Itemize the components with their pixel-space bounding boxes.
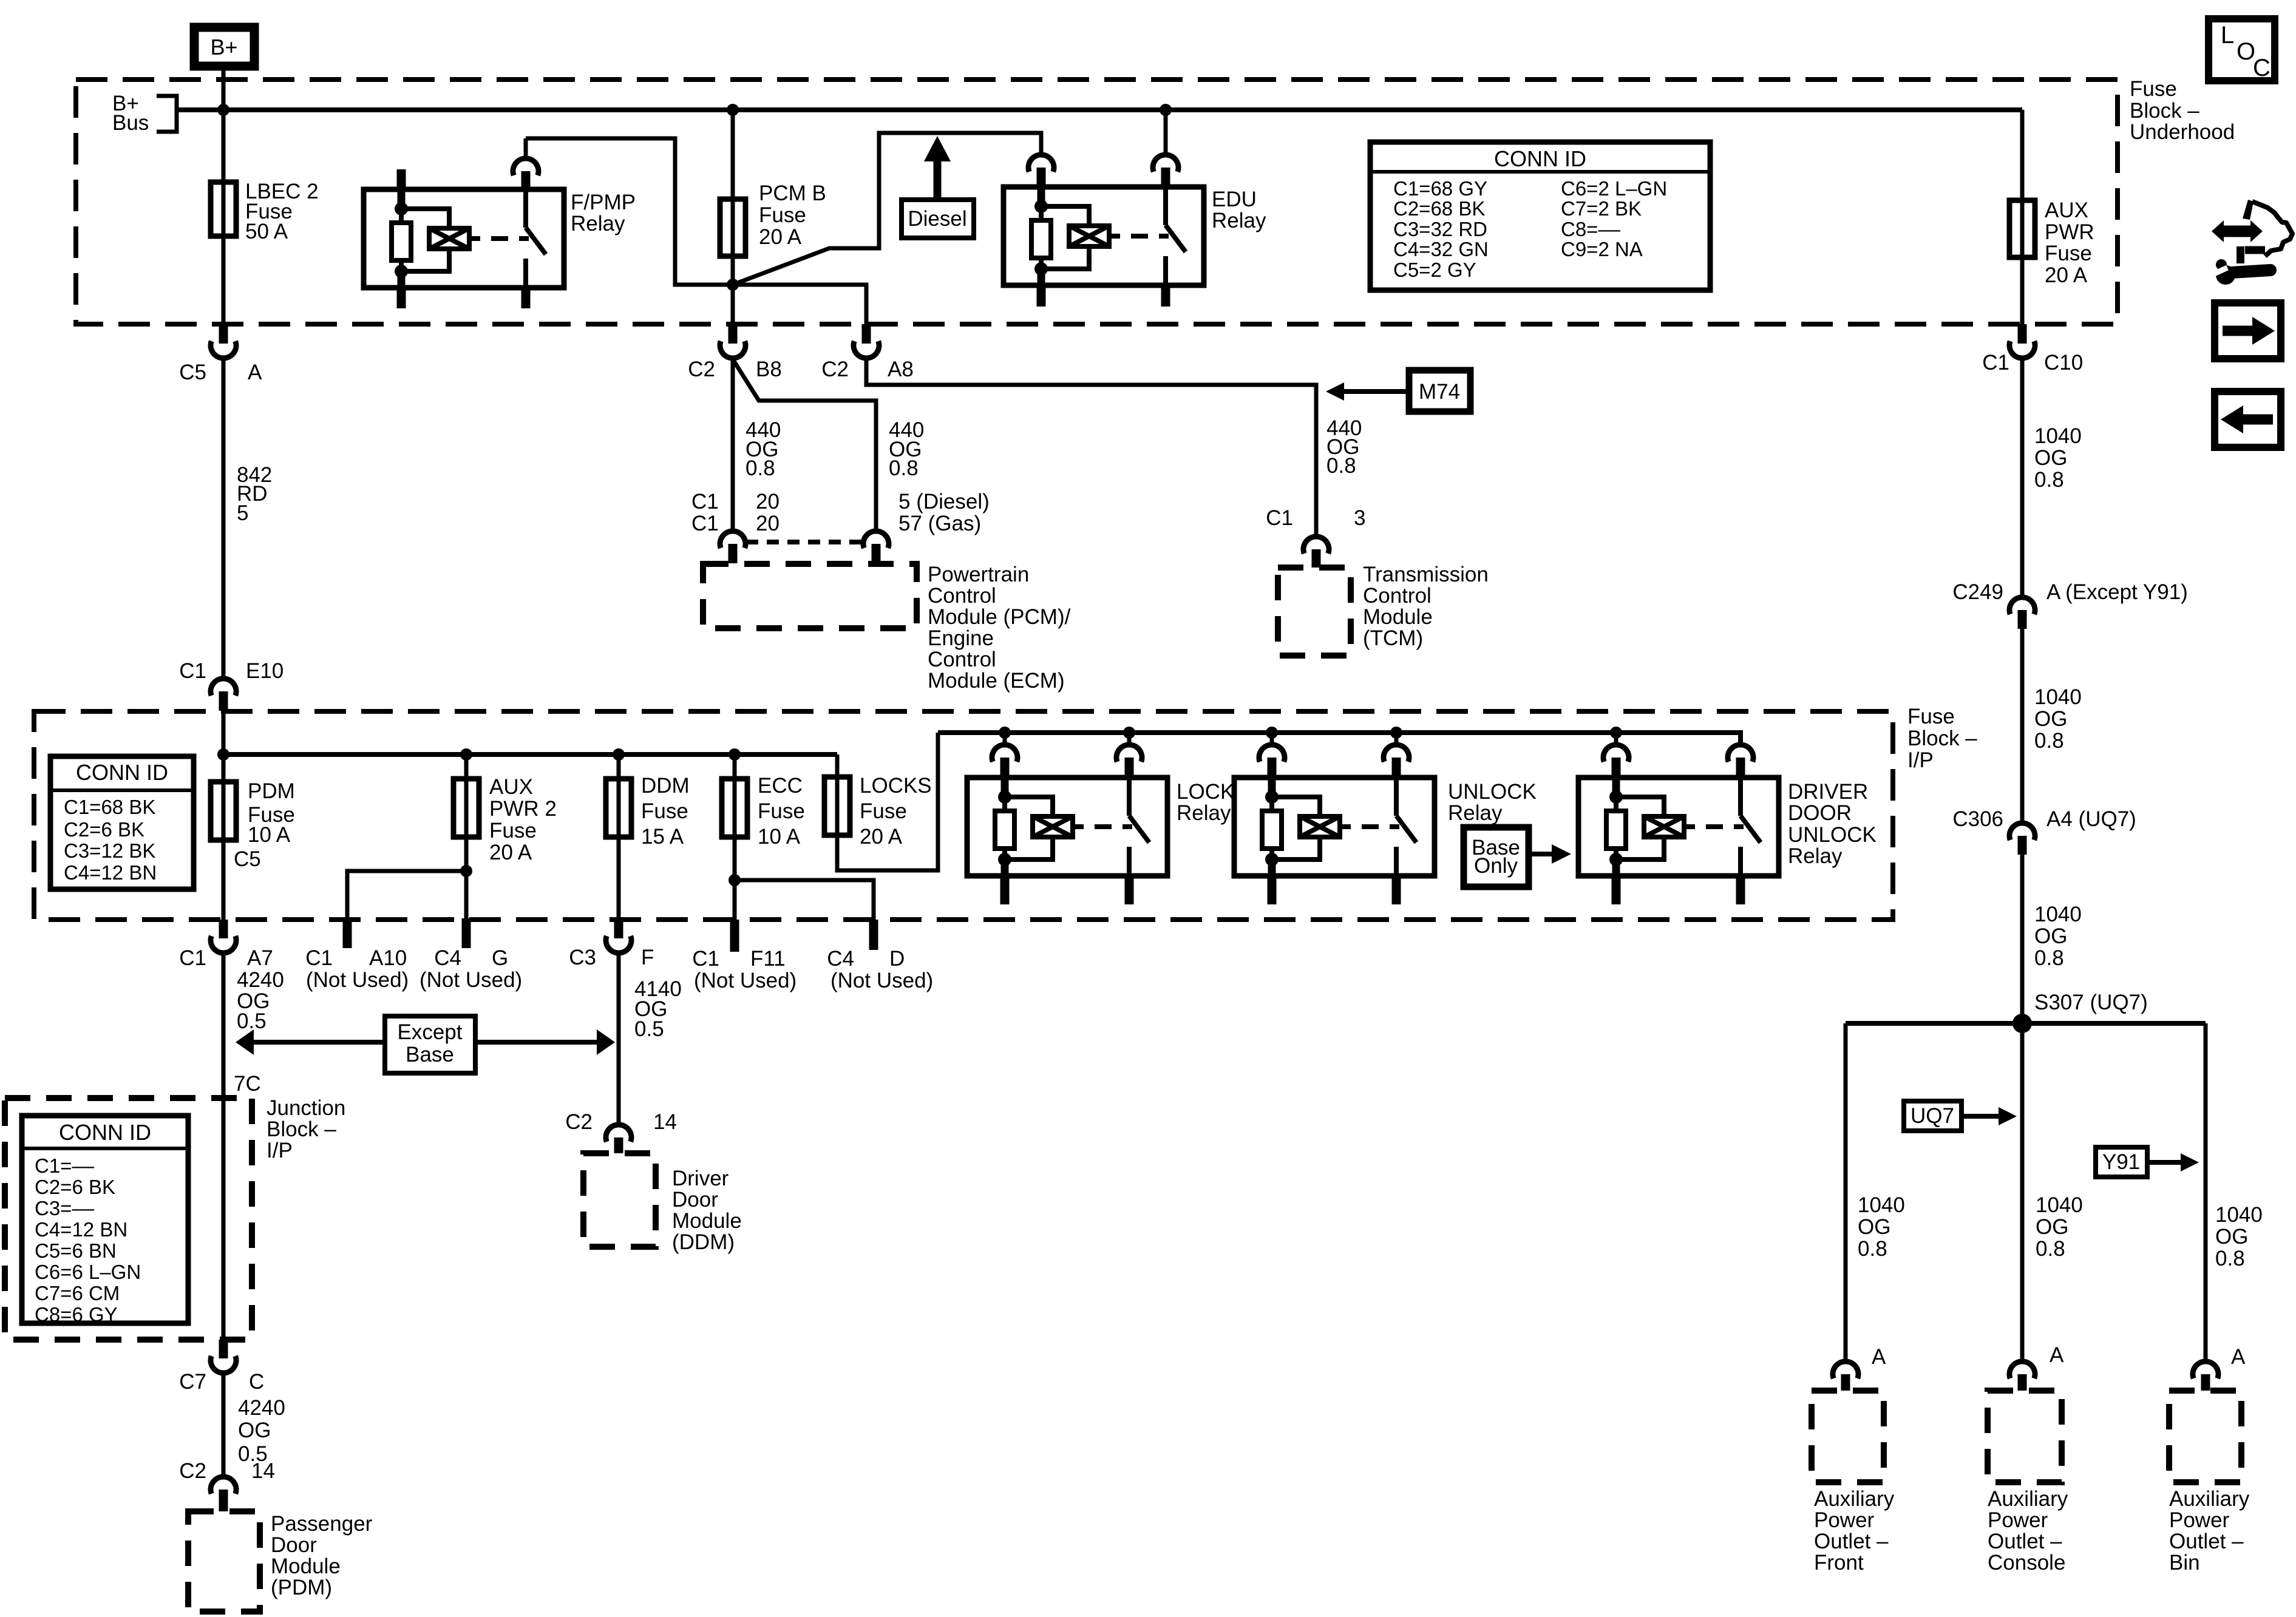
svg-text:15 A: 15 A — [641, 825, 684, 849]
wire 440 OG 0.8 from B8 to PCM pin 20 — [733, 358, 781, 531]
module TCM dashed box — [1278, 563, 1489, 656]
svg-text:C4: C4 — [827, 947, 854, 971]
svg-text:OG: OG — [2034, 707, 2067, 731]
flag M74 — [1326, 370, 1470, 412]
junction relay bus LOCK coil — [999, 727, 1011, 739]
svg-text:5 (Diesel): 5 (Diesel) — [898, 490, 990, 514]
pin stub C4 D not used — [827, 920, 933, 992]
pin stub LOCK switch bottom — [1125, 876, 1134, 904]
svg-text:C6=2 L–GN: C6=2 L–GN — [1561, 177, 1667, 200]
svg-text:UNLOCK: UNLOCK — [1788, 823, 1877, 847]
wire relay feed bus — [938, 733, 1741, 745]
svg-text:C7=2 BK: C7=2 BK — [1561, 197, 1642, 220]
svg-text:0.5: 0.5 — [237, 1009, 267, 1033]
fuse AUX PWR 20 A — [2009, 198, 2094, 287]
svg-text:Fuse: Fuse — [758, 799, 805, 823]
connector TCM pin 3 — [1303, 537, 1329, 568]
svg-text:Relay: Relay — [1448, 801, 1503, 825]
svg-text:F/PMP: F/PMP — [571, 191, 636, 214]
svg-text:OG: OG — [2215, 1225, 2248, 1249]
svg-text:A: A — [248, 361, 262, 384]
module Passenger Door Module PDM — [188, 1511, 373, 1612]
svg-text:C4=12 BN: C4=12 BN — [35, 1218, 127, 1241]
svg-text:LOCKS: LOCKS — [860, 774, 932, 798]
connector C2 B8 below PCM B — [688, 324, 782, 381]
svg-text:0.8: 0.8 — [2034, 729, 2064, 753]
wire 1040 OG 0.8 outlet console — [2022, 1023, 2083, 1361]
svg-text:PWR 2: PWR 2 — [489, 797, 557, 821]
svg-text:C1: C1 — [691, 512, 719, 535]
svg-text:C1: C1 — [305, 946, 333, 970]
svg-text:20 A: 20 A — [860, 825, 903, 849]
svg-text:E10: E10 — [246, 659, 284, 683]
module Auxiliary Power Outlet Console — [1988, 1391, 2068, 1575]
wire branch B8 to PCM pin 5/57 — [733, 359, 876, 531]
flag Base Only — [1464, 827, 1571, 887]
module Auxiliary Power Outlet Front — [1812, 1391, 1895, 1575]
svg-text:C2=6 BK: C2=6 BK — [64, 818, 144, 841]
svg-text:Door: Door — [672, 1188, 718, 1212]
pin stub UNLOCK switch bottom — [1392, 876, 1401, 904]
svg-text:C7: C7 — [179, 1370, 206, 1394]
junction IP bus at DDM fuse — [613, 748, 625, 761]
svg-text:Powertrain: Powertrain — [928, 563, 1029, 586]
wire branch to C4 D — [735, 880, 874, 920]
svg-text:B8: B8 — [756, 358, 782, 381]
svg-text:EDU: EDU — [1212, 188, 1257, 211]
pin stub F/PMP switch bottom — [521, 288, 531, 308]
fuse ECC 10 A — [722, 774, 805, 849]
junction IP bus at PDM fuse — [217, 748, 229, 761]
svg-text:Block –: Block – — [1907, 727, 1977, 750]
svg-text:5: 5 — [237, 501, 248, 525]
svg-text:14: 14 — [653, 1110, 677, 1134]
svg-text:B+: B+ — [210, 35, 237, 59]
power symbol B+ — [194, 27, 254, 66]
svg-text:C5=2 GY: C5=2 GY — [1393, 259, 1476, 281]
svg-text:A7: A7 — [247, 946, 273, 970]
svg-text:20 A: 20 A — [2045, 263, 2088, 287]
svg-text:Front: Front — [1814, 1551, 1864, 1575]
connector DRIVER relay switch pin — [1728, 745, 1753, 778]
fuse LOCKS 20 A — [824, 774, 932, 849]
connector C2 A8 — [821, 324, 914, 381]
junction IP bus at ECC fuse — [729, 748, 741, 761]
svg-text:1040: 1040 — [2215, 1203, 2263, 1227]
svg-text:LOCK: LOCK — [1177, 780, 1234, 804]
svg-text:0.8: 0.8 — [1326, 454, 1356, 478]
pin stub LOCK coil bottom — [1000, 876, 1010, 904]
svg-text:Module (PCM)/: Module (PCM)/ — [928, 605, 1071, 629]
connector LOCK relay coil pin — [992, 733, 1017, 778]
wire PCM B fuse branch — [731, 110, 735, 324]
svg-text:C1=68 GY: C1=68 GY — [1393, 177, 1487, 200]
svg-text:Module: Module — [672, 1209, 742, 1233]
junction relay bus LOCK switch — [1123, 727, 1135, 739]
junction IP bus at AUX PWR 2 fuse — [460, 748, 472, 761]
pin stub EDU switch bottom — [1161, 285, 1170, 307]
svg-text:(Not Used): (Not Used) — [306, 968, 409, 992]
relay EDU — [1004, 187, 1266, 285]
relay UNLOCK — [1234, 778, 1537, 876]
svg-text:Fuse: Fuse — [1907, 705, 1955, 728]
pin labels C1 C1 20 20 at PCM — [691, 490, 990, 535]
label Junction Block IP — [267, 1096, 345, 1162]
connector C2 14 at PDM module — [179, 1459, 275, 1511]
svg-text:0.8: 0.8 — [2034, 468, 2064, 492]
svg-text:1040: 1040 — [2034, 685, 2082, 709]
wire 1040 OG 0.8 outlet bin — [2206, 1023, 2263, 1361]
label Fuse Block IP — [1907, 705, 1977, 772]
svg-text:Module: Module — [271, 1554, 341, 1578]
svg-text:PCM B: PCM B — [759, 181, 826, 205]
flag UQ7 — [1904, 1101, 2017, 1131]
wire B+ bus — [177, 107, 2022, 112]
svg-text:L: L — [2221, 22, 2234, 49]
svg-text:I/P: I/P — [1907, 748, 1934, 772]
wire F/PMP switch to PCM B junction — [526, 138, 733, 285]
pin labels C1 3 at TCM — [1266, 506, 1365, 530]
svg-text:UNLOCK: UNLOCK — [1448, 780, 1537, 804]
label Fuse Block Underhood — [2130, 77, 2235, 144]
wire junction to C2 A8 — [733, 285, 866, 324]
svg-text:Auxiliary: Auxiliary — [1814, 1487, 1895, 1511]
svg-text:A10: A10 — [369, 946, 407, 970]
svg-text:0.8: 0.8 — [746, 456, 775, 480]
svg-text:0.5: 0.5 — [634, 1017, 664, 1041]
connector C306 A4 — [1952, 807, 2136, 855]
svg-text:(Not Used): (Not Used) — [694, 969, 796, 992]
svg-text:Relay: Relay — [1177, 801, 1231, 825]
junction relay bus UNLOCK coil — [1266, 727, 1278, 739]
svg-text:C5: C5 — [234, 847, 261, 871]
connector pin A outlet bin — [2193, 1345, 2246, 1391]
icon hand with wrench — [2212, 200, 2292, 285]
svg-text:Outlet –: Outlet – — [1988, 1530, 2062, 1553]
svg-text:20 A: 20 A — [489, 841, 532, 864]
svg-text:Underhood: Underhood — [2130, 120, 2235, 144]
svg-text:A4 (UQ7): A4 (UQ7) — [2046, 807, 2136, 831]
svg-text:OG: OG — [2034, 924, 2067, 948]
label 440 OG 0.8 TCM wire — [1326, 416, 1362, 478]
svg-text:10 A: 10 A — [248, 823, 291, 847]
svg-text:C2: C2 — [179, 1459, 206, 1483]
wire LBEC 2 fuse branch — [222, 110, 226, 324]
icon arrow right box — [2215, 303, 2281, 359]
junction block IP dashed box — [5, 1098, 252, 1340]
connector pin A outlet console — [2009, 1343, 2064, 1391]
svg-text:C3=––: C3=–– — [35, 1197, 95, 1219]
junction relay bus UNLOCK switch — [1390, 727, 1402, 739]
wire junction to EDU relay coil (Diesel) — [733, 133, 1041, 285]
pin stub C1 F11 not used — [692, 920, 796, 992]
svg-text:C1: C1 — [692, 947, 719, 971]
connector C3 F below DDM fuse — [569, 920, 654, 969]
wire IP bus — [223, 752, 837, 757]
table CONN ID IP fuse block — [50, 756, 194, 889]
table CONN ID underhood — [1370, 142, 1710, 290]
wire EDU switch from bus — [1164, 110, 1168, 155]
svg-text:C306: C306 — [1952, 807, 2003, 831]
svg-text:PDM: PDM — [248, 779, 295, 803]
svg-text:C5=6 BN: C5=6 BN — [35, 1239, 117, 1262]
svg-text:0.8: 0.8 — [2034, 946, 2064, 970]
svg-text:CONN ID: CONN ID — [1494, 146, 1586, 171]
junction below PCM B fuse — [727, 279, 739, 291]
junction on bus at PCM B fuse — [727, 104, 739, 116]
svg-text:Passenger: Passenger — [271, 1512, 373, 1536]
svg-text:C4=12 BN: C4=12 BN — [64, 861, 157, 884]
svg-text:OG: OG — [2036, 1215, 2068, 1239]
pin stub UNLOCK coil bottom — [1268, 876, 1277, 904]
connector LOCK relay switch pin — [1116, 733, 1142, 778]
icon arrow left box — [2215, 392, 2281, 447]
svg-text:DDM: DDM — [641, 774, 690, 798]
svg-text:Transmission: Transmission — [1363, 563, 1489, 586]
svg-text:UQ7: UQ7 — [1911, 1104, 1954, 1128]
pin stub C4 G not used — [419, 918, 522, 992]
svg-text:C3=12 BK: C3=12 BK — [64, 839, 155, 862]
svg-text:1040: 1040 — [2034, 903, 2082, 926]
svg-text:C5: C5 — [179, 361, 206, 384]
svg-text:(TCM): (TCM) — [1363, 626, 1423, 650]
svg-text:Except: Except — [398, 1020, 463, 1044]
wire DDM fuse branch — [617, 754, 621, 920]
svg-text:F: F — [641, 946, 654, 969]
fuse LBEC 2 50 A — [211, 180, 319, 243]
svg-text:57 (Gas): 57 (Gas) — [898, 512, 981, 535]
svg-text:C3: C3 — [569, 946, 596, 969]
pin stub C1 A10 not used — [305, 918, 409, 992]
svg-text:Control: Control — [1363, 584, 1432, 608]
fuse block underhood dashed box — [76, 80, 2118, 324]
svg-text:CONN ID: CONN ID — [76, 760, 168, 785]
svg-text:CONN ID: CONN ID — [59, 1120, 151, 1145]
flag Y91 — [2096, 1147, 2199, 1177]
svg-text:C10: C10 — [2044, 351, 2083, 375]
fuse PCM B 20 A — [720, 181, 826, 256]
module Auxiliary Power Outlet Bin — [2169, 1391, 2250, 1575]
svg-text:Driver: Driver — [672, 1167, 729, 1190]
connector C1 E10 into IP fuse block — [179, 659, 284, 711]
svg-text:Fuse: Fuse — [2045, 242, 2092, 265]
svg-text:Block –: Block – — [267, 1117, 336, 1141]
junction relay bus DRIVER coil — [1610, 727, 1622, 739]
svg-text:OG: OG — [238, 1419, 271, 1442]
svg-text:Fuse: Fuse — [860, 799, 907, 823]
svg-text:Relay: Relay — [1788, 844, 1843, 868]
relay LOCK — [967, 778, 1234, 876]
connector F/PMP switch pin 30 — [513, 138, 538, 189]
wire 4140 OG 0.5 — [619, 953, 682, 1125]
svg-text:OG: OG — [2034, 446, 2067, 470]
svg-text:Engine: Engine — [928, 626, 994, 650]
svg-text:C7=6 CM: C7=6 CM — [35, 1282, 120, 1304]
svg-text:Junction: Junction — [267, 1096, 345, 1120]
svg-text:A: A — [2231, 1345, 2246, 1369]
svg-text:C1=68 BK: C1=68 BK — [64, 796, 155, 818]
svg-text:Control: Control — [928, 648, 996, 671]
svg-text:C4=32 GN: C4=32 GN — [1393, 238, 1489, 260]
svg-text:10 A: 10 A — [758, 825, 801, 849]
wire 1040 OG 0.8 to C249 — [2022, 358, 2082, 597]
fuse AUX PWR 2 20 A — [453, 775, 557, 864]
pin stub F/PMP coil top — [397, 169, 406, 189]
connector pin A outlet front — [1833, 1345, 1886, 1391]
wire ECC fuse branch — [733, 754, 737, 920]
svg-text:Outlet –: Outlet – — [1814, 1530, 1889, 1553]
relay DRIVER DOOR UNLOCK — [1578, 778, 1877, 876]
svg-text:C8=––: C8=–– — [1561, 218, 1621, 240]
svg-text:Module (ECM): Module (ECM) — [928, 669, 1065, 693]
svg-text:Module: Module — [1363, 605, 1433, 629]
svg-text:0.8: 0.8 — [889, 456, 919, 480]
connector PCM pin 5/57 — [863, 531, 889, 563]
svg-text:F11: F11 — [750, 947, 786, 971]
svg-text:20: 20 — [756, 512, 779, 535]
svg-text:50 A: 50 A — [245, 220, 288, 243]
svg-text:Outlet –: Outlet – — [2169, 1530, 2244, 1553]
svg-text:Fuse: Fuse — [489, 819, 537, 842]
pin stub F/PMP coil bottom — [397, 288, 406, 308]
svg-text:Only: Only — [1474, 854, 1518, 878]
svg-text:AUX: AUX — [489, 775, 533, 799]
wire 1040 OG 0.8 outlet front — [1846, 1023, 1905, 1361]
wire PDM fuse branch — [222, 711, 226, 920]
wire AUX PWR 2 fuse branch — [464, 754, 469, 918]
svg-text:3: 3 — [1354, 506, 1365, 530]
svg-text:Power: Power — [2169, 1508, 2230, 1532]
svg-text:4240: 4240 — [237, 968, 284, 992]
wire AUX PWR fuse branch — [2020, 110, 2025, 324]
svg-text:M74: M74 — [1419, 380, 1460, 404]
wire branch to C1 A10 — [347, 871, 466, 918]
connector DRIVER relay coil pin — [1603, 733, 1629, 778]
flag Diesel — [902, 136, 974, 238]
svg-text:DOOR: DOOR — [1788, 801, 1852, 825]
svg-text:Power: Power — [1814, 1508, 1875, 1532]
svg-text:DRIVER: DRIVER — [1788, 780, 1868, 804]
svg-text:Power: Power — [1988, 1508, 2048, 1532]
svg-text:0.8: 0.8 — [2036, 1237, 2065, 1261]
pin stub DRIVER switch bottom — [1736, 876, 1745, 904]
svg-text:C2=6 BK: C2=6 BK — [35, 1176, 115, 1198]
wire 1040 OG 0.8 to S307 — [2022, 855, 2082, 1023]
connector UNLOCK relay switch pin — [1384, 733, 1409, 778]
svg-text:ECC: ECC — [758, 774, 803, 798]
svg-text:(DDM): (DDM) — [672, 1230, 735, 1254]
svg-text:Auxiliary: Auxiliary — [2169, 1487, 2250, 1511]
svg-text:A: A — [2050, 1343, 2064, 1367]
svg-text:C9=2 NA: C9=2 NA — [1561, 238, 1643, 260]
svg-text:S307 (UQ7): S307 (UQ7) — [2034, 991, 2148, 1014]
svg-text:0.8: 0.8 — [2215, 1247, 2245, 1270]
svg-text:C1: C1 — [179, 659, 206, 683]
svg-text:4240: 4240 — [238, 1396, 285, 1420]
svg-text:Console: Console — [1988, 1551, 2065, 1575]
svg-text:(PDM): (PDM) — [271, 1576, 332, 1599]
svg-text:C249: C249 — [1952, 580, 2003, 604]
connector UNLOCK relay coil pin — [1259, 733, 1285, 778]
node B+ Bus bracket — [112, 92, 177, 135]
connector C5 A below LBEC 2 — [179, 324, 262, 384]
svg-text:C1=––: C1=–– — [35, 1154, 95, 1177]
connector EDU switch pin 30 — [1153, 155, 1178, 187]
svg-text:A (Except Y91): A (Except Y91) — [2046, 580, 2188, 604]
svg-text:C2=68 BK: C2=68 BK — [1393, 197, 1485, 220]
junction on bus at LBEC 2 fuse — [217, 104, 229, 116]
fuse PDM 10 A — [211, 779, 295, 871]
svg-text:OG: OG — [1858, 1215, 1890, 1239]
junction on bus at EDU relay — [1160, 104, 1172, 116]
module Driver Door Module DDM — [583, 1153, 742, 1254]
svg-text:Fuse: Fuse — [2130, 77, 2177, 101]
svg-text:Relay: Relay — [571, 212, 625, 236]
svg-text:1040: 1040 — [2034, 424, 2082, 448]
svg-text:C2: C2 — [565, 1110, 593, 1134]
pin stub EDU coil bottom — [1037, 285, 1046, 307]
svg-text:C4: C4 — [434, 946, 461, 970]
relay F/PMP — [364, 189, 636, 288]
svg-text:A: A — [1872, 1345, 1886, 1369]
svg-text:PWR: PWR — [2045, 220, 2094, 244]
connector C1 A7 below PDM fuse — [179, 920, 273, 970]
connector C2 14 at DDM module — [565, 1110, 677, 1153]
svg-text:Door: Door — [271, 1533, 317, 1557]
svg-text:AUX: AUX — [2045, 198, 2088, 222]
svg-text:C1: C1 — [1266, 506, 1293, 530]
svg-text:1040: 1040 — [2036, 1193, 2083, 1217]
svg-text:Block –: Block – — [2130, 99, 2199, 123]
svg-text:(Not Used): (Not Used) — [419, 968, 522, 992]
svg-text:Bus: Bus — [112, 111, 149, 135]
svg-text:Fuse: Fuse — [759, 203, 806, 227]
svg-text:14: 14 — [251, 1459, 275, 1483]
wire B+ symbol to bus — [222, 70, 226, 110]
svg-text:Control: Control — [928, 584, 996, 608]
svg-text:C3=32 RD: C3=32 RD — [1393, 218, 1487, 240]
svg-text:C: C — [249, 1370, 264, 1394]
svg-text:C2: C2 — [821, 358, 849, 381]
connector C7 C below junction block — [179, 1340, 264, 1394]
svg-text:(Not Used): (Not Used) — [830, 969, 933, 992]
wire 1040 OG 0.8 to C306 — [2022, 629, 2082, 822]
wire S307 distribution — [1846, 1021, 2206, 1026]
svg-text:20: 20 — [756, 490, 779, 514]
module PCM/ECM dashed box — [703, 563, 1071, 693]
pin stub DRIVER coil bottom — [1612, 876, 1621, 904]
junction below ECC fuse — [729, 874, 741, 886]
wire 842 RD 5 — [223, 358, 272, 678]
svg-text:Bin: Bin — [2169, 1551, 2200, 1575]
connector PCM pin 20 — [720, 531, 746, 563]
svg-text:I/P: I/P — [267, 1139, 293, 1162]
svg-text:Base: Base — [406, 1043, 454, 1066]
connector C1 C10 below AUX PWR — [1982, 324, 2083, 375]
svg-text:C6=6 L–GN: C6=6 L–GN — [35, 1261, 141, 1283]
connector C249 A — [1952, 580, 2188, 629]
svg-text:0.8: 0.8 — [1858, 1237, 1887, 1261]
connector EDU coil pin 86 — [1028, 155, 1054, 187]
svg-text:Y91: Y91 — [2102, 1150, 2140, 1174]
svg-text:C1: C1 — [1982, 351, 2009, 375]
svg-text:C1: C1 — [179, 946, 206, 970]
dashed connector bar PCM — [746, 540, 863, 544]
flag Except Base — [236, 1016, 615, 1073]
svg-text:A8: A8 — [888, 358, 914, 381]
wire 4240 OG 0.5 — [223, 953, 284, 1340]
svg-text:Relay: Relay — [1212, 209, 1266, 232]
